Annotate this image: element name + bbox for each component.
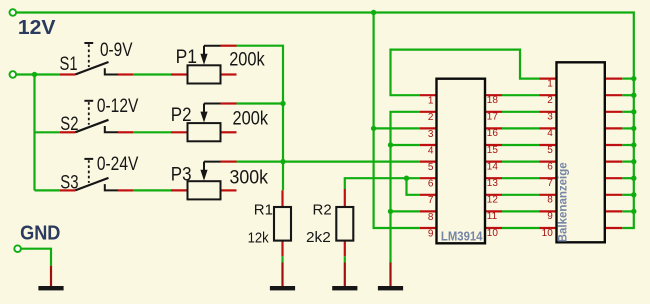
svg-text:2k2: 2k2 [306,229,331,246]
svg-text:9: 9 [428,228,434,239]
svg-text:13: 13 [487,178,499,189]
svg-text:Balkenanzeige: Balkenanzeige [556,162,570,242]
svg-text:0-24V: 0-24V [97,154,139,175]
svg-text:6: 6 [547,161,553,172]
svg-text:5: 5 [428,162,434,173]
svg-text:0-9V: 0-9V [100,40,133,61]
svg-text:200k: 200k [233,108,269,129]
svg-text:10: 10 [542,228,554,239]
svg-text:17: 17 [487,112,499,123]
svg-text:12V: 12V [18,17,56,39]
svg-text:S3: S3 [60,172,78,193]
svg-text:S1: S1 [60,54,78,75]
svg-text:1: 1 [547,78,553,89]
svg-text:300k: 300k [230,168,269,189]
svg-text:11: 11 [487,211,498,222]
svg-text:S2: S2 [60,114,78,135]
svg-text:2: 2 [428,112,434,123]
svg-text:200k: 200k [229,50,265,71]
svg-text:18: 18 [487,95,499,106]
svg-text:5: 5 [547,145,553,156]
svg-text:GND: GND [20,222,60,244]
svg-text:15: 15 [487,145,499,156]
svg-text:9: 9 [547,211,553,222]
svg-text:LM3914: LM3914 [441,229,483,243]
svg-text:7: 7 [428,195,434,206]
svg-text:P3: P3 [171,164,192,185]
svg-text:2: 2 [547,95,553,106]
svg-text:14: 14 [487,161,499,172]
svg-text:12: 12 [487,195,499,206]
svg-text:3: 3 [428,129,434,140]
svg-text:3: 3 [547,112,553,123]
svg-text:7: 7 [547,178,553,189]
svg-text:R1: R1 [254,201,273,218]
svg-text:8: 8 [547,195,553,206]
svg-text:16: 16 [487,128,499,139]
svg-text:4: 4 [547,128,553,139]
svg-text:12k: 12k [248,230,270,247]
svg-text:P2: P2 [171,105,192,126]
svg-text:6: 6 [428,179,434,190]
svg-text:8: 8 [428,212,434,223]
svg-text:P1: P1 [176,47,197,68]
svg-text:R2: R2 [313,201,332,218]
svg-text:1: 1 [428,96,434,107]
svg-text:10: 10 [487,228,499,239]
svg-text:4: 4 [428,145,434,156]
svg-text:0-12V: 0-12V [97,96,139,117]
